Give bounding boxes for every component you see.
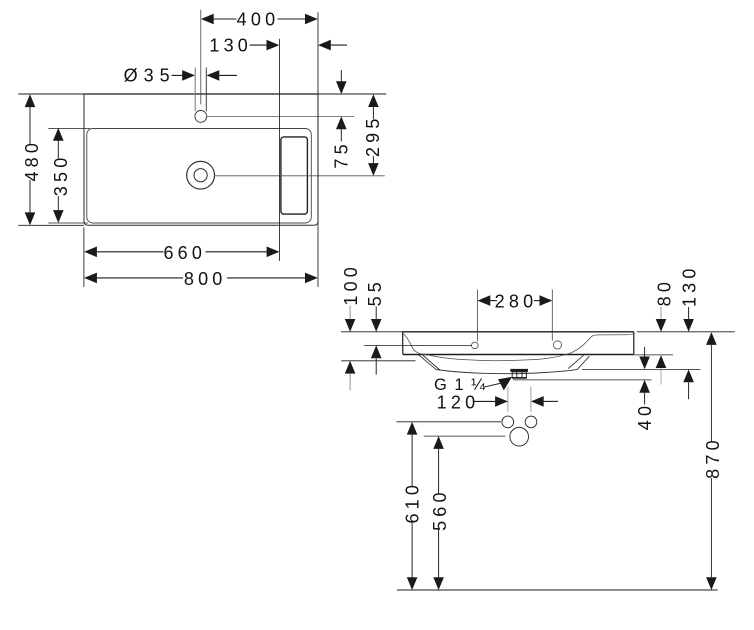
55 level line (to fixing hole) [364,344,472,346]
dim 120 right arrow [531,396,544,407]
dim 280 left arrow [478,295,491,306]
svg-text:800: 800 [184,269,227,289]
svg-text:480: 480 [22,139,42,182]
basin inner rim rounded rectangle [87,129,311,224]
bulge left chamfer line [422,355,439,370]
dim 75 down arrow [336,81,347,94]
faucet hole left edge extension (D35) [194,68,196,112]
dim 660 left arrow [84,247,97,258]
basin outer outline (800x480 top view) [84,94,318,225]
dim 120 left arrow [495,396,508,407]
dim 660 right arrow [267,247,280,258]
faucet hole right edge extension (D35) [205,68,207,112]
dim 400 right arrow [305,14,318,25]
svg-text:55: 55 [365,278,385,306]
dim 80 up arrow [656,355,667,368]
basin top edge + extension line (480/75/295 dims) [18,93,386,95]
svg-text:400: 400 [237,10,280,30]
svg-text:560: 560 [430,488,450,531]
svg-text:40: 40 [635,402,655,430]
dim 870 stem lower [710,478,712,577]
trap body circle [510,427,529,446]
dim D35 tail left [172,74,183,76]
dim D35 right arrow [207,70,220,81]
dim 295 bottom arrow [368,163,379,176]
dim 40 lower stem [644,393,646,405]
dim 120 extension line left [507,387,509,412]
dim 130 side upper stem [688,307,690,319]
dim 350 stem lower [57,196,59,211]
G 1 1/4 leader line [484,383,501,387]
dim 870 stem upper [710,345,712,442]
dim 40 up arrow [639,380,650,393]
dim 130 side lower stem [688,382,690,399]
dim 100 upper stem [349,306,351,320]
svg-text:610: 610 [402,481,422,524]
fitting thread line 2 [521,372,523,378]
svg-text:280: 280 [495,291,538,311]
dim 100 up arrow [345,361,356,374]
drain fitting threaded body [512,372,526,378]
dim 400 line right segment [278,18,306,20]
dim 130 line [250,44,267,46]
svg-text:295: 295 [363,114,383,157]
dim 280 extension line right [551,290,553,341]
rim level line right extension (80/130/870) [637,331,735,333]
dim 480 top arrow [25,94,36,107]
apron bottom extension line (80 dim) [634,354,673,356]
dim 130 side down arrow [683,319,694,332]
shelf / overflow recess rectangle [281,137,308,214]
dim D35 left arrow [182,70,195,81]
dim 480 stem upper [29,107,31,145]
dim 800 line left segment [97,277,183,279]
dim 400 left arrow [201,14,214,25]
dim 280 line right segment [534,300,540,302]
dim 800 line right segment [227,277,305,279]
bowl underside bulge outline [418,355,589,374]
dim 120 tail left [475,400,496,402]
svg-text:75: 75 [331,140,351,168]
dim 560 stem lower [438,530,440,578]
dim 295 top arrow [368,94,379,107]
svg-text:80: 80 [655,278,675,306]
dim 870 bottom arrow [706,577,717,590]
basin rim top edge (side view) [403,331,634,333]
dim 120 tail right [544,400,558,402]
svg-text:350: 350 [51,154,71,197]
fitting thread line 1 [516,372,518,378]
100 level line [341,360,415,362]
fixing hole left (side view) [472,342,479,349]
dim 560 top arrow [433,436,444,449]
dim 280 right arrow [540,295,553,306]
trap inlet circle left [502,416,514,428]
dim 350 bottom arrow [53,210,64,223]
fixing hole right (side view) [553,341,561,349]
dim 100 down arrow [345,319,356,332]
svg-text:120: 120 [437,392,480,412]
dim 295 stem lower [372,156,374,163]
610 level line (trap inlets) [396,421,501,423]
130/660 shared extension line [279,39,281,261]
dim 130 left arrow [267,40,280,51]
basin apron bottom edge [403,354,634,356]
inner rim bottom extension line [48,222,88,224]
faucet hole (D35) [195,111,207,123]
svg-text:130: 130 [209,36,252,56]
dim D35 tail right [219,74,237,76]
G 1 1/4 leader arrow [498,377,512,391]
dim 480 bottom arrow [25,212,36,225]
dim 350 top arrow [53,128,64,141]
basin left edge (side view) [402,332,404,354]
bulge right chamfer line [568,355,584,369]
dim 100 lower stem [349,374,351,391]
fitting bottom line [512,377,527,379]
drain inner circle [194,169,207,182]
basin interior bowl curve [403,334,633,361]
inner rim top extension line (350 dim) [48,128,90,130]
drain fitting bottom level line (40 dim) [513,379,652,381]
outer bottom edge extension line [18,224,84,226]
dim 80 down arrow [656,319,667,332]
dim 610 bottom arrow [407,577,418,590]
right edge extension line (400/130/800) [317,12,319,287]
svg-text:130: 130 [680,264,700,307]
svg-text:100: 100 [341,263,361,306]
rim level line left extension [341,331,403,333]
560 level line (trap) [424,435,506,437]
dim 130 tail line [331,44,347,46]
dim 350 stem upper [57,140,59,159]
dim 130 side up arrow [683,369,694,382]
dim 280 extension line left [477,290,479,342]
dim 870 top arrow [706,332,717,345]
dim 610 top arrow [407,422,418,435]
trap inlet circle right [525,416,537,428]
dim 660 line left segment [97,251,164,253]
floor line [397,589,718,591]
dim 75 lower stem [340,129,342,141]
basin underside level line (130/40 dims) [582,368,701,370]
basin right edge (side view) [633,332,635,354]
faucet hole centre line to 75 dim [207,115,355,117]
dim 480 stem lower [29,180,31,213]
dim 560 stem upper [438,449,440,494]
dim 120 extension line right [530,387,532,412]
dim 800 right arrow [305,273,318,284]
basin top edge bold segment [84,93,318,95]
dim 280 line left segment [490,300,497,302]
drain fitting flange (black) [510,369,528,372]
drain centre line to 295 dim [215,175,385,177]
svg-text:660: 660 [163,243,206,263]
dim 610 stem lower [411,523,413,578]
dim 40 down arrow [639,357,650,370]
faucet centre extension line (400 dim) [200,10,202,105]
dim 560 bottom arrow [433,577,444,590]
dim 40 upper stem [644,347,646,357]
dim 75 upper stem [340,70,342,82]
dim 660 line right segment [206,251,267,253]
dim 610 stem upper [411,434,413,487]
svg-text:870: 870 [703,436,723,479]
dim 75 up arrow [336,116,347,129]
dim 80 upper stem [660,307,662,319]
dim 80 lower stem [660,368,662,385]
dim 295 stem upper [372,107,374,119]
dim 55 up arrow [371,345,382,358]
dim 130 right arrow [318,40,331,51]
left edge extension line (660/800) [83,228,85,288]
svg-text:G 1 ¼: G 1 ¼ [434,376,486,394]
svg-text:Ø35: Ø35 [124,65,176,85]
drain outer circle [187,161,215,189]
dim 400 line left segment [214,18,237,20]
dim 55 lower stem [375,358,377,374]
dim 800 left arrow [84,273,97,284]
dim 55 upper stem [375,307,377,320]
dim 55 down arrow [371,319,382,332]
